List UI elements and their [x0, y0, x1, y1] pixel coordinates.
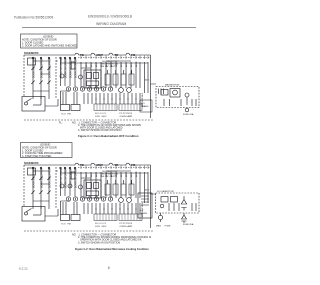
- svg-text:3. SWITCH SHOWN IN ON POSITION: 3. SWITCH SHOWN IN ON POSITION: [78, 241, 120, 244]
- svg-text:DOOR SW UPPER: DOOR SW UPPER: [70, 58, 72, 78]
- svg-text:N L1 L2 C1: N L1 L2 C1: [95, 113, 107, 115]
- svg-text:H.V.: H.V.: [145, 79, 150, 82]
- svg-text:H.V.CAPACITOR: H.V.CAPACITOR: [157, 190, 174, 193]
- svg-text:MAG FUSE: MAG FUSE: [156, 225, 171, 228]
- svg-text:OVEN LAMP: OVEN LAMP: [120, 115, 133, 118]
- svg-text:Figure C-1: Oven Bake/radiant-: Figure C-1: Oven Bake/radiant-OFF Condit…: [78, 134, 139, 138]
- svg-text:DOOR SW UPPER: DOOR SW UPPER: [61, 168, 63, 188]
- svg-text:TCO FM: TCO FM: [61, 224, 71, 226]
- svg-text:TCO FM: TCO FM: [61, 114, 71, 116]
- svg-text:DOOR SW UPPER: DOOR SW UPPER: [75, 58, 77, 78]
- svg-text:HL SW CAVITY: HL SW CAVITY: [102, 65, 117, 68]
- svg-text:DOOR SW UPPER: DOOR SW UPPER: [49, 168, 51, 188]
- svg-text:FM: FM: [131, 163, 136, 167]
- svg-text:P1 P2 P3 P4: P1 P2 P3 P4: [120, 113, 133, 115]
- svg-text:TB: TB: [80, 53, 84, 57]
- svg-text:OVEN LAMP: OVEN LAMP: [120, 225, 133, 228]
- svg-text:120V 240V: 120V 240V: [95, 226, 107, 228]
- svg-text:DOOR SW UPPER: DOOR SW UPPER: [70, 168, 72, 188]
- svg-text:BK-10: BK-10: [136, 61, 138, 67]
- svg-text:FM: FM: [131, 53, 136, 57]
- svg-text:WIRING DIAGRAM: WIRING DIAGRAM: [96, 22, 126, 26]
- svg-text:DOOR SW UPPER: DOOR SW UPPER: [65, 168, 67, 188]
- svg-text:6: 6: [108, 266, 110, 270]
- svg-text:SCHEMATIC: SCHEMATIC: [24, 162, 39, 165]
- svg-text:DOOR SW UPPER: DOOR SW UPPER: [33, 168, 35, 188]
- svg-text:DOOR SW UPPER: DOOR SW UPPER: [33, 58, 35, 78]
- svg-text:BRN WHT BLK: BRN WHT BLK: [142, 92, 144, 107]
- svg-text:DOOR SW UPPER: DOOR SW UPPER: [41, 168, 43, 188]
- svg-text:2. DOOR LATCHED AND SWITCHES C: 2. DOOR LATCHED AND SWITCHES CHECKED: [22, 44, 77, 47]
- svg-text:FUSE 20A: FUSE 20A: [183, 223, 194, 226]
- svg-text:N L1 L2 C1: N L1 L2 C1: [95, 223, 107, 225]
- svg-text:TB: TB: [80, 163, 84, 167]
- svg-text:H.V.: H.V.: [145, 189, 150, 192]
- svg-text:DOOR SW UPPER: DOOR SW UPPER: [41, 58, 43, 78]
- svg-text:EW30SO60LS / EW30SO60LB: EW30SO60LS / EW30SO60LB: [88, 15, 132, 19]
- svg-text:DOOR SW UPPER: DOOR SW UPPER: [49, 58, 51, 78]
- svg-text:MGT: MGT: [97, 53, 104, 57]
- svg-text:3. SWITCH SHOWN IN OFF POSITIO: 3. SWITCH SHOWN IN OFF POSITION: [78, 129, 122, 132]
- svg-text:DOOR SW UPPER: DOOR SW UPPER: [65, 58, 67, 78]
- svg-text:Figure C-2: Oven Bake/radiant: Figure C-2: Oven Bake/radiant Microwave …: [75, 247, 149, 251]
- svg-text:FL :: FL :: [59, 122, 63, 125]
- svg-text:6.2.12: 6.2.12: [19, 267, 28, 271]
- svg-text:DOOR SW UPPER: DOOR SW UPPER: [75, 168, 77, 188]
- svg-text:3. START PAD TOUCHED: 3. START PAD TOUCHED: [22, 155, 52, 158]
- svg-text:DOOR SW UPPER: DOOR SW UPPER: [61, 58, 63, 78]
- svg-text:MGT: MGT: [97, 163, 104, 167]
- svg-text:HL SW CAVITY: HL SW CAVITY: [102, 175, 117, 178]
- svg-text:MAGNETRON: MAGNETRON: [165, 84, 180, 87]
- svg-text:P1 P2 P3 P4: P1 P2 P3 P4: [120, 223, 133, 225]
- svg-text:120V 240V: 120V 240V: [95, 116, 107, 118]
- svg-text:FUSE 20A: FUSE 20A: [183, 113, 194, 116]
- svg-text:BK-10: BK-10: [136, 171, 138, 177]
- svg-text:SCHEMATIC: SCHEMATIC: [24, 52, 39, 55]
- svg-text:BRN WHT BLK: BRN WHT BLK: [142, 202, 144, 217]
- svg-text:Publication No 5995512909: Publication No 5995512909: [14, 16, 53, 20]
